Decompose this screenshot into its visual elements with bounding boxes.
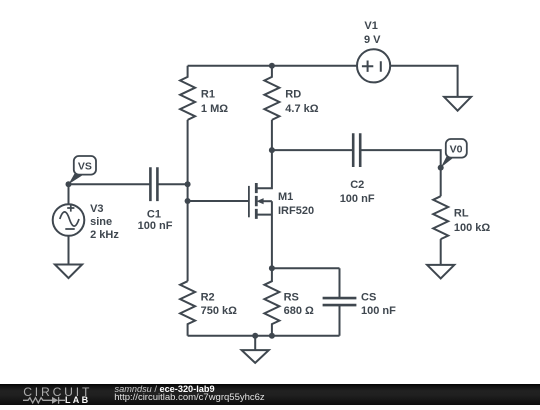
node dot C1 junction	[185, 181, 191, 187]
svg-text:100 nF: 100 nF	[138, 220, 173, 232]
node dot top rail RD junction	[269, 63, 275, 69]
capacitor C1	[150, 167, 157, 201]
CircuitLab logo LAB	[65, 395, 90, 405]
CircuitLab logo CIRCUIT	[23, 385, 92, 399]
transistor M1 source lead	[256, 201, 272, 268]
resistor R2	[180, 281, 195, 336]
node dot gate junction	[185, 198, 191, 204]
svg-text:M1: M1	[278, 191, 293, 203]
ground G4	[242, 336, 269, 363]
voltage source V3 sine	[53, 204, 85, 236]
resistor RS	[264, 268, 279, 336]
wire drain node to C2	[272, 149, 353, 151]
svg-text:2 kHz: 2 kHz	[90, 229, 119, 241]
wire C1 to bus	[157, 183, 187, 185]
wire V3 to ground	[68, 236, 70, 265]
capacitor CS	[323, 268, 357, 336]
wire VS node to C1	[69, 183, 151, 185]
wire RS top to CS	[272, 267, 340, 269]
CircuitLab logo squiggle (resistor + diode)	[22, 395, 68, 405]
wire gate	[188, 200, 249, 202]
node dot RS bottom	[269, 333, 275, 339]
footer bar	[0, 384, 540, 405]
wire VS node to V3	[68, 184, 70, 204]
footer url	[114, 392, 264, 403]
node dot ground junction	[252, 333, 258, 339]
svg-text:100 nF: 100 nF	[361, 305, 396, 317]
svg-text:sine: sine	[90, 216, 112, 228]
wire top rail left	[188, 65, 358, 67]
ground G1	[444, 97, 471, 111]
flag V0	[441, 139, 467, 168]
svg-text:RL: RL	[454, 208, 469, 220]
resistor R1	[180, 66, 195, 120]
voltage source V1	[357, 49, 390, 82]
svg-text:9 V: 9 V	[364, 34, 381, 46]
svg-text:V1: V1	[364, 20, 377, 32]
svg-text:1 MΩ: 1 MΩ	[201, 103, 228, 115]
ground G3	[55, 265, 82, 279]
resistor RL	[433, 196, 448, 239]
svg-text:R2: R2	[201, 292, 215, 304]
node dot RS top	[269, 265, 275, 271]
wire RL to ground	[440, 239, 442, 265]
svg-text:4.7 kΩ: 4.7 kΩ	[285, 103, 318, 115]
node dot V0 anchor	[438, 165, 444, 171]
svg-text:C1: C1	[147, 208, 161, 220]
wire bus R1 bottom to R2 top	[187, 120, 189, 281]
svg-text:V0: V0	[450, 143, 463, 155]
wire V1 to ground	[390, 66, 458, 97]
svg-text:V3: V3	[90, 203, 103, 215]
footer title	[115, 384, 215, 394]
svg-text:750 kΩ: 750 kΩ	[201, 305, 238, 317]
wire C2 to RL	[360, 150, 441, 196]
transistor M1 channel bars	[255, 183, 258, 219]
svg-text:C2: C2	[350, 179, 364, 191]
transistor M1 drain lead	[256, 150, 272, 188]
svg-text:VS: VS	[78, 161, 92, 173]
svg-text:RD: RD	[285, 89, 301, 101]
capacitor C2	[353, 133, 360, 167]
wire RD bottom to drain node	[271, 120, 273, 150]
svg-text:100 nF: 100 nF	[340, 193, 375, 205]
svg-text:IRF520: IRF520	[278, 205, 314, 217]
flag VS	[69, 156, 97, 184]
transistor M1 body arrow	[256, 198, 272, 204]
transistor M1 gate bar	[248, 186, 250, 217]
ground G2	[427, 265, 454, 279]
node dot VS anchor	[66, 181, 72, 187]
wire bottom rail	[188, 335, 340, 337]
svg-text:RS: RS	[284, 292, 299, 304]
node dot drain	[269, 147, 275, 153]
svg-text:CS: CS	[361, 292, 376, 304]
svg-text:680 Ω: 680 Ω	[284, 305, 314, 317]
resistor RD	[264, 66, 279, 120]
svg-text:R1: R1	[201, 89, 215, 101]
svg-text:100 kΩ: 100 kΩ	[454, 222, 491, 234]
